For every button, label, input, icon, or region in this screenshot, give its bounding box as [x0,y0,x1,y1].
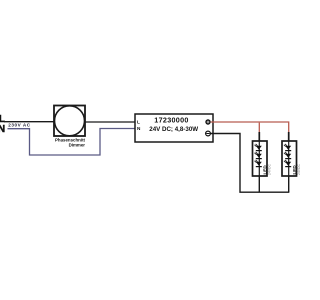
svg-text:N: N [0,124,5,135]
svg-text:17230000: 17230000 [154,116,188,125]
svg-text:24V DC; 4,8-30W: 24V DC; 4,8-30W [149,126,198,133]
svg-text:Dimmer: Dimmer [69,143,86,148]
svg-text:24VDC: 24VDC [267,164,271,175]
svg-text:24VDC: 24VDC [297,164,300,175]
svg-text:230V AC: 230V AC [8,123,30,128]
svg-text:L: L [137,119,140,124]
